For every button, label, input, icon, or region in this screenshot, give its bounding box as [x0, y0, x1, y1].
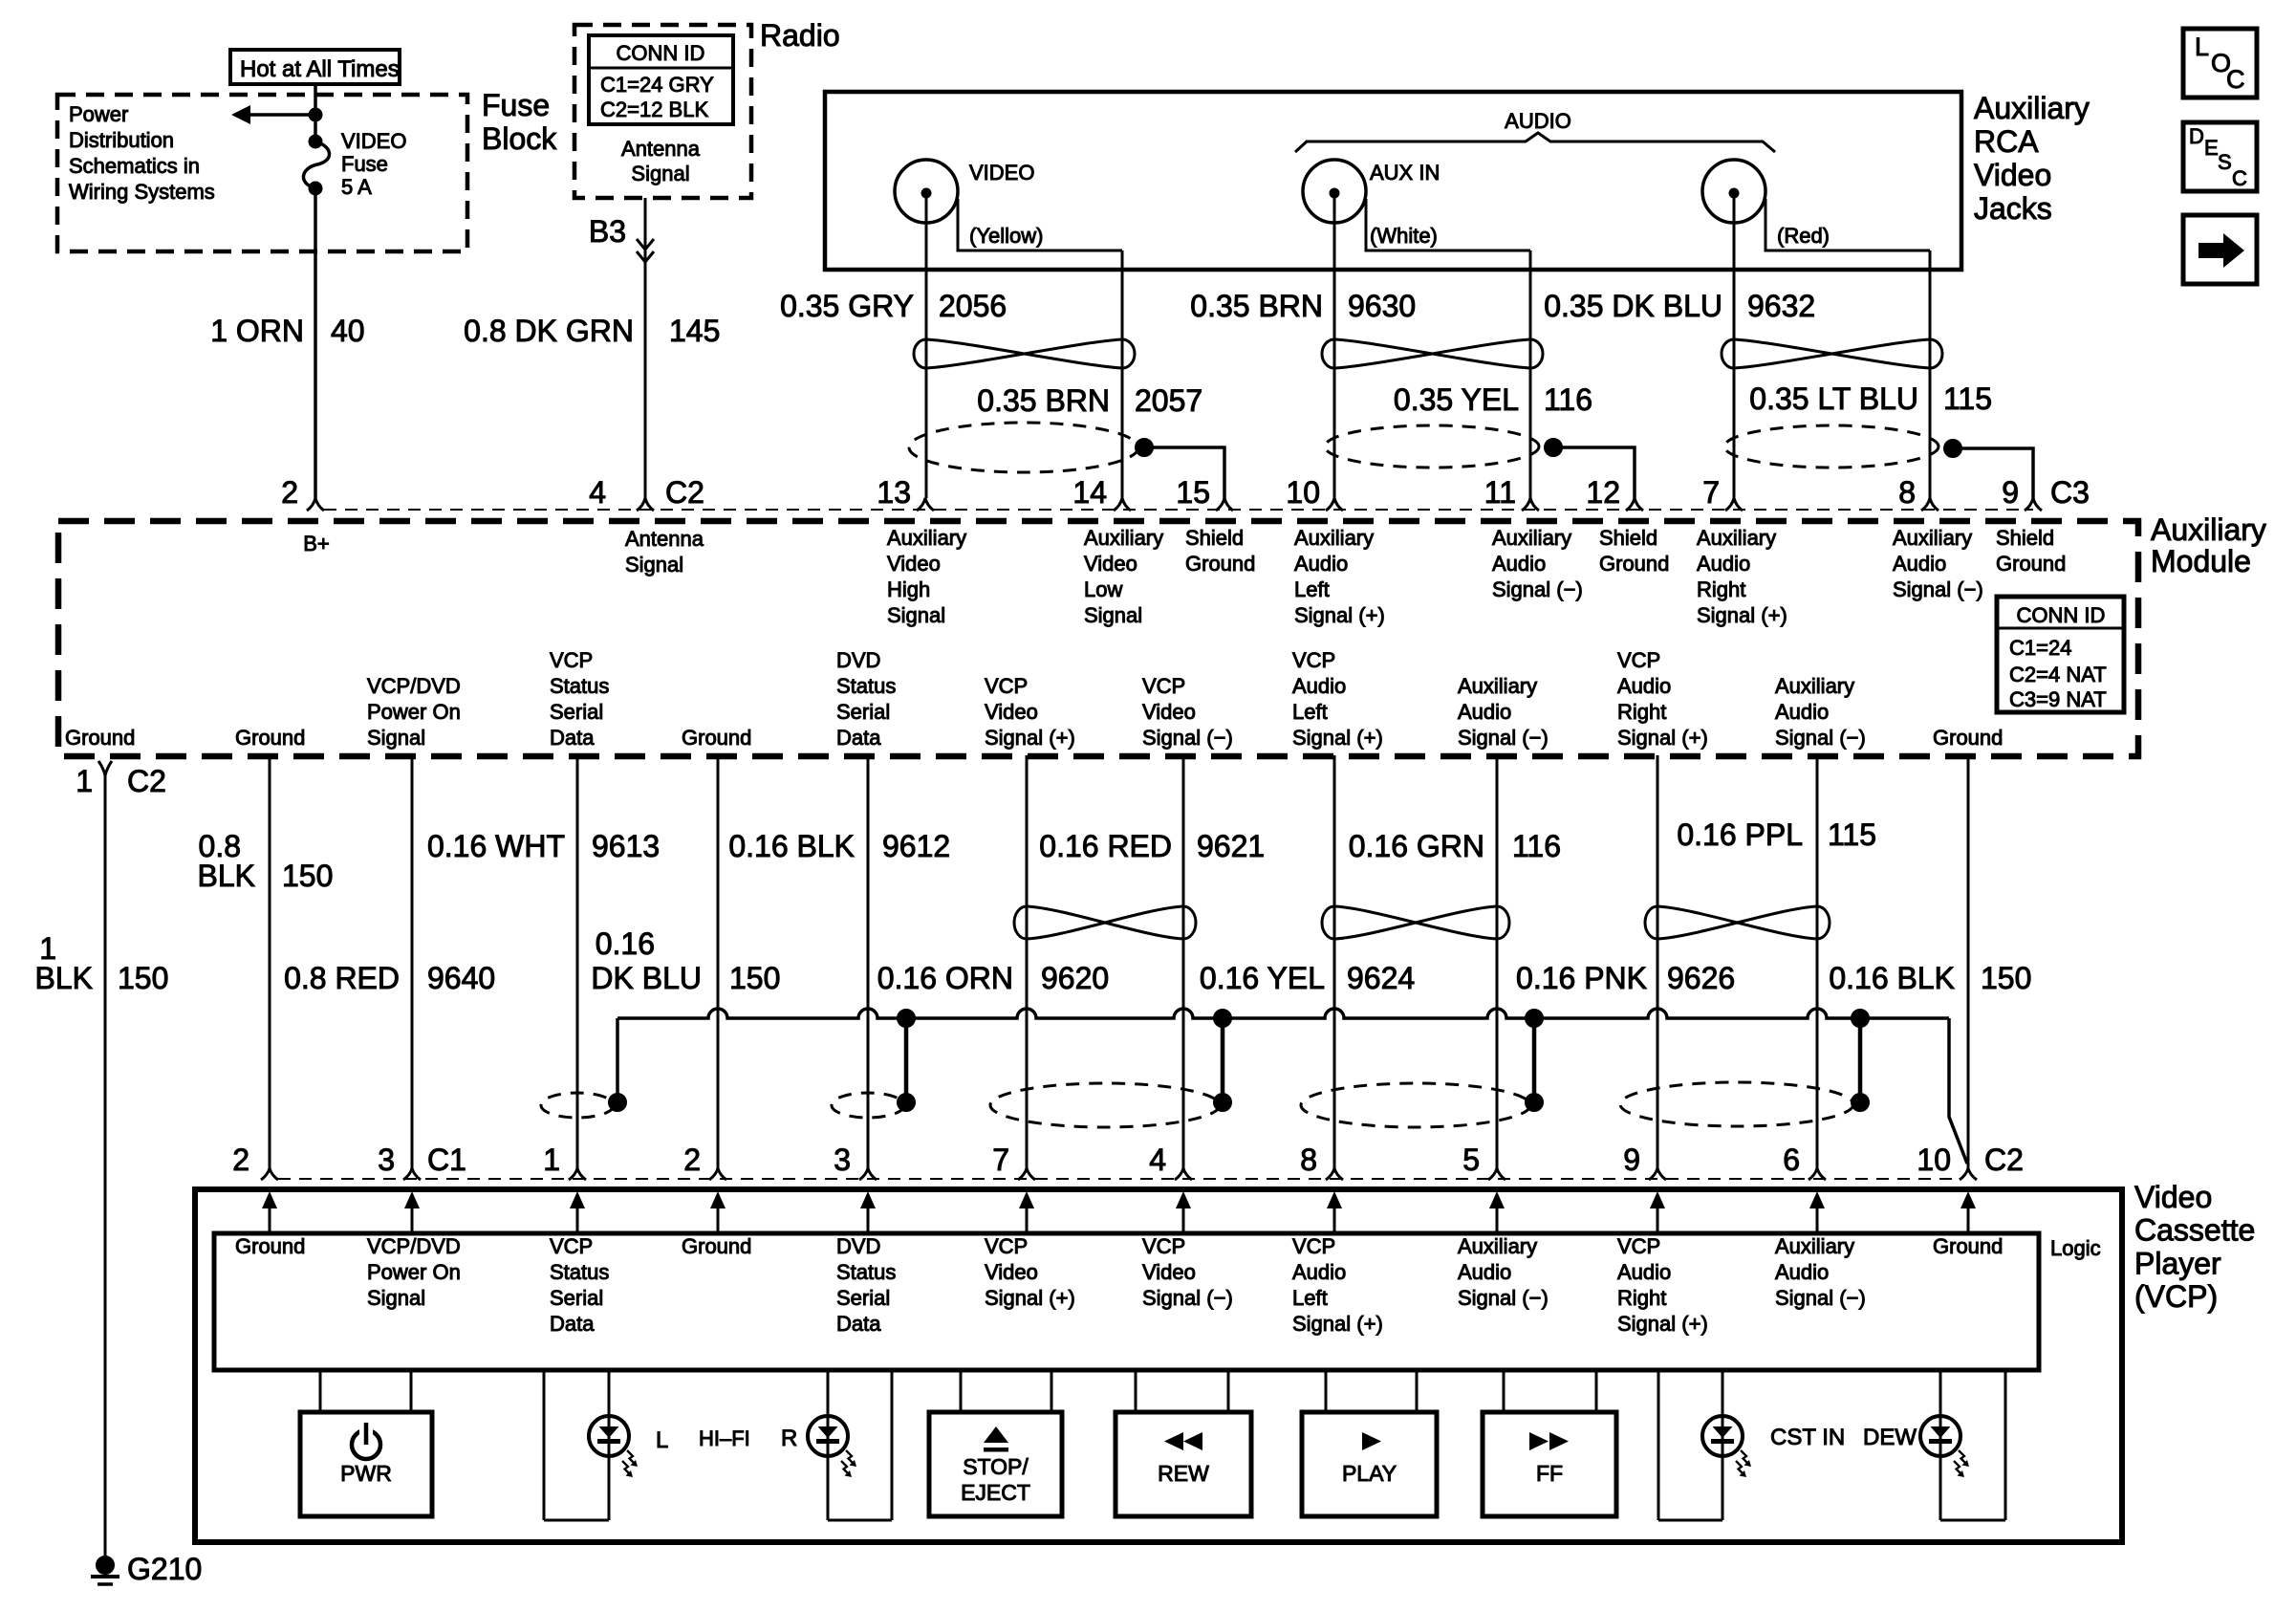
svg-text:9620: 9620 [1041, 961, 1109, 995]
svg-text:14: 14 [1072, 475, 1107, 510]
svg-text:S: S [2218, 150, 2232, 174]
svg-text:Ground: Ground [1599, 552, 1669, 576]
svg-text:2056: 2056 [939, 289, 1007, 323]
svg-text:Power: Power [69, 102, 128, 126]
svg-text:Audio: Audio [1617, 1260, 1671, 1284]
svg-text:B+: B+ [303, 532, 330, 555]
svg-text:145: 145 [669, 314, 720, 348]
svg-text:C1=24 GRY: C1=24 GRY [600, 73, 714, 97]
svg-text:VCP: VCP [985, 674, 1028, 698]
svg-text:Right: Right [1617, 1286, 1666, 1310]
svg-text:0.8 DK GRN: 0.8 DK GRN [464, 314, 634, 348]
svg-text:CST IN: CST IN [1770, 1425, 1845, 1450]
svg-text:12: 12 [1586, 475, 1620, 510]
svg-text:0.16 BLK: 0.16 BLK [728, 829, 855, 863]
svg-text:CONN ID: CONN ID [2017, 603, 2106, 627]
svg-text:0.35 YEL: 0.35 YEL [1394, 382, 1519, 417]
svg-text:Auxiliary: Auxiliary [887, 526, 966, 550]
svg-text:Ground: Ground [1933, 1234, 2003, 1258]
svg-text:10: 10 [1917, 1143, 1951, 1177]
svg-text:Status: Status [836, 674, 896, 698]
svg-text:C1=24: C1=24 [2009, 636, 2071, 660]
svg-text:Audio: Audio [1697, 552, 1750, 576]
svg-text:0.35 BRN: 0.35 BRN [977, 383, 1110, 418]
svg-text:C: C [2226, 65, 2245, 94]
svg-text:C3: C3 [2050, 475, 2090, 510]
svg-text:E: E [2204, 136, 2219, 160]
svg-text:Auxiliary: Auxiliary [1294, 526, 1374, 550]
svg-text:Data: Data [550, 1312, 595, 1336]
svg-text:Signal (+): Signal (+) [1697, 603, 1787, 627]
svg-text:VCP: VCP [985, 1234, 1028, 1258]
svg-text:0.35 DK BLU: 0.35 DK BLU [1544, 289, 1722, 323]
svg-text:7: 7 [992, 1143, 1009, 1177]
svg-text:VCP: VCP [1617, 648, 1660, 672]
svg-text:Fuse: Fuse [341, 152, 388, 176]
svg-text:116: 116 [1512, 829, 1561, 863]
svg-text:Video: Video [985, 700, 1038, 724]
svg-text:Antenna: Antenna [625, 527, 704, 551]
svg-text:VCP: VCP [550, 648, 593, 672]
svg-text:REW: REW [1158, 1461, 1209, 1486]
svg-text:Left: Left [1292, 1286, 1328, 1310]
svg-text:Audio: Audio [1458, 1260, 1511, 1284]
svg-text:0.16: 0.16 [596, 926, 655, 961]
svg-text:Signal: Signal [887, 603, 945, 627]
svg-text:C2: C2 [1984, 1143, 2024, 1177]
svg-text:R: R [781, 1426, 797, 1451]
svg-text:Distribution: Distribution [69, 128, 174, 152]
svg-text:VIDEO: VIDEO [969, 161, 1034, 185]
svg-text:2057: 2057 [1135, 383, 1202, 418]
svg-text:Signal: Signal [367, 726, 425, 750]
svg-text:3: 3 [378, 1143, 395, 1177]
svg-text:Video: Video [1142, 700, 1196, 724]
svg-text:(White): (White) [1370, 224, 1438, 248]
svg-text:L: L [2195, 33, 2209, 61]
svg-text:Player: Player [2134, 1246, 2221, 1280]
svg-text:0.35 LT BLU: 0.35 LT BLU [1749, 381, 1918, 416]
svg-text:Radio: Radio [760, 18, 840, 53]
svg-text:DVD: DVD [836, 648, 880, 672]
svg-text:9: 9 [2002, 475, 2019, 510]
svg-text:Auxiliary: Auxiliary [1974, 91, 2090, 125]
svg-text:Signal: Signal [367, 1286, 425, 1310]
svg-text:Serial: Serial [836, 1286, 890, 1310]
svg-text:Auxiliary: Auxiliary [1492, 526, 1571, 550]
svg-text:Ground: Ground [65, 726, 135, 750]
svg-text:Left: Left [1294, 577, 1330, 601]
svg-text:RCA: RCA [1974, 124, 2039, 159]
svg-text:150: 150 [282, 859, 333, 893]
svg-text:Audio: Audio [1292, 674, 1346, 698]
svg-text:Auxiliary: Auxiliary [1084, 526, 1163, 550]
svg-text:11: 11 [1484, 475, 1516, 510]
svg-text:Video: Video [1974, 158, 2051, 192]
svg-text:Video: Video [2134, 1180, 2212, 1214]
svg-text:Wiring Systems: Wiring Systems [69, 180, 215, 204]
svg-text:Audio: Audio [1617, 674, 1671, 698]
svg-text:8: 8 [1300, 1143, 1317, 1177]
svg-text:PWR: PWR [340, 1461, 392, 1486]
svg-text:Signal (−): Signal (−) [1775, 726, 1866, 750]
svg-text:Audio: Audio [1893, 552, 1946, 576]
svg-text:Audio: Audio [1292, 1260, 1346, 1284]
svg-text:VCP/DVD: VCP/DVD [367, 674, 461, 698]
svg-text:0.16 PPL: 0.16 PPL [1677, 817, 1803, 852]
svg-text:Signal (−): Signal (−) [1458, 726, 1549, 750]
svg-text:Video: Video [1084, 552, 1137, 576]
svg-text:EJECT: EJECT [961, 1480, 1030, 1505]
svg-text:0.16 ORN: 0.16 ORN [877, 961, 1013, 995]
svg-text:Audio: Audio [1775, 700, 1829, 724]
svg-text:Signal (−): Signal (−) [1458, 1286, 1549, 1310]
svg-text:C2: C2 [665, 475, 704, 510]
svg-text:Jacks: Jacks [1974, 191, 2052, 226]
svg-text:VCP: VCP [1292, 1234, 1335, 1258]
svg-text:115: 115 [1828, 817, 1876, 852]
svg-text:Signal (−): Signal (−) [1775, 1286, 1866, 1310]
svg-text:Auxiliary: Auxiliary [1458, 674, 1537, 698]
svg-text:Cassette: Cassette [2134, 1213, 2255, 1248]
svg-text:DK BLU: DK BLU [591, 961, 702, 995]
svg-text:15: 15 [1176, 475, 1210, 510]
svg-text:Audio: Audio [1492, 552, 1546, 576]
svg-text:Auxiliary: Auxiliary [1458, 1234, 1537, 1258]
svg-text:9621: 9621 [1197, 829, 1265, 863]
svg-text:Schematics in: Schematics in [69, 154, 200, 178]
svg-text:9626: 9626 [1667, 961, 1735, 995]
svg-text:1 ORN: 1 ORN [210, 314, 304, 348]
svg-text:High: High [887, 577, 930, 601]
svg-text:Data: Data [836, 726, 881, 750]
svg-text:VCP: VCP [550, 1234, 593, 1258]
svg-text:Low: Low [1084, 577, 1122, 601]
svg-text:9624: 9624 [1347, 961, 1415, 995]
svg-text:7: 7 [1702, 475, 1720, 510]
svg-text:Ground: Ground [1996, 552, 2066, 576]
svg-text:Logic: Logic [2050, 1236, 2101, 1260]
svg-text:(VCP): (VCP) [2134, 1279, 2218, 1314]
svg-text:(Yellow): (Yellow) [969, 224, 1043, 248]
svg-text:0.35 GRY: 0.35 GRY [780, 289, 914, 323]
svg-text:PLAY: PLAY [1342, 1461, 1397, 1486]
svg-text:Auxiliary: Auxiliary [1893, 526, 1972, 550]
svg-text:6: 6 [1783, 1143, 1800, 1177]
svg-text:(Red): (Red) [1777, 224, 1830, 248]
svg-text:4: 4 [589, 475, 606, 510]
svg-text:Antenna: Antenna [621, 137, 701, 161]
svg-text:C3=9 NAT: C3=9 NAT [2009, 687, 2107, 711]
svg-text:VCP: VCP [1142, 674, 1185, 698]
svg-text:150: 150 [118, 961, 168, 995]
svg-text:Ground: Ground [235, 1234, 305, 1258]
svg-text:VCP/DVD: VCP/DVD [367, 1234, 461, 1258]
svg-text:150: 150 [729, 961, 780, 995]
svg-text:5 A: 5 A [341, 175, 372, 199]
svg-text:G210: G210 [127, 1552, 202, 1586]
svg-text:Status: Status [550, 674, 609, 698]
svg-text:FF: FF [1536, 1461, 1563, 1486]
svg-text:DEW: DEW [1863, 1425, 1917, 1450]
svg-text:Auxiliary: Auxiliary [1775, 674, 1854, 698]
svg-text:Block: Block [482, 121, 557, 156]
svg-text:Signal (−): Signal (−) [1893, 577, 1983, 601]
svg-text:2: 2 [281, 475, 298, 510]
svg-text:D: D [2189, 124, 2204, 148]
svg-text:Audio: Audio [1294, 552, 1348, 576]
svg-text:Shield: Shield [1599, 526, 1657, 550]
svg-text:4: 4 [1149, 1143, 1166, 1177]
svg-text:Module: Module [2151, 544, 2251, 578]
svg-text:2: 2 [232, 1143, 249, 1177]
svg-text:Data: Data [550, 726, 595, 750]
svg-text:Audio: Audio [1775, 1260, 1829, 1284]
svg-text:Shield: Shield [1185, 526, 1244, 550]
svg-text:Status: Status [550, 1260, 609, 1284]
svg-text:VCP: VCP [1142, 1234, 1185, 1258]
svg-text:8: 8 [1898, 475, 1916, 510]
svg-text:C2=12 BLK: C2=12 BLK [600, 98, 708, 121]
svg-text:9613: 9613 [592, 829, 660, 863]
svg-text:0.16 PNK: 0.16 PNK [1516, 961, 1647, 995]
svg-text:DVD: DVD [836, 1234, 880, 1258]
svg-text:1: 1 [76, 764, 93, 798]
svg-text:9632: 9632 [1747, 289, 1815, 323]
svg-text:Audio: Audio [1458, 700, 1511, 724]
svg-text:Serial: Serial [550, 1286, 603, 1310]
svg-text:CONN ID: CONN ID [617, 41, 705, 65]
svg-text:150: 150 [1981, 961, 2031, 995]
svg-text:3: 3 [834, 1143, 851, 1177]
svg-text:Signal (+): Signal (+) [985, 1286, 1075, 1310]
svg-text:9: 9 [1623, 1143, 1640, 1177]
svg-text:Signal (−): Signal (−) [1492, 577, 1583, 601]
svg-text:Auxiliary: Auxiliary [2151, 512, 2266, 547]
svg-text:Signal (−): Signal (−) [1142, 726, 1233, 750]
svg-text:HI–FI: HI–FI [699, 1426, 750, 1450]
svg-text:Video: Video [985, 1260, 1038, 1284]
svg-text:Signal (+): Signal (+) [1292, 1312, 1383, 1336]
svg-text:Fuse: Fuse [482, 88, 550, 122]
svg-text:9612: 9612 [882, 829, 950, 863]
svg-text:0.16 RED: 0.16 RED [1039, 829, 1172, 863]
svg-text:Signal: Signal [625, 553, 683, 577]
svg-text:C2=4 NAT: C2=4 NAT [2009, 663, 2107, 686]
svg-text:9640: 9640 [427, 961, 495, 995]
svg-text:C2: C2 [127, 764, 166, 798]
svg-text:Ground: Ground [1185, 552, 1255, 576]
svg-text:9630: 9630 [1348, 289, 1416, 323]
svg-text:1: 1 [543, 1143, 560, 1177]
svg-text:5: 5 [1462, 1143, 1480, 1177]
svg-text:Auxiliary: Auxiliary [1775, 1234, 1854, 1258]
svg-text:Status: Status [836, 1260, 896, 1284]
svg-text:Signal (+): Signal (+) [1617, 726, 1708, 750]
svg-text:Hot at All Times: Hot at All Times [240, 56, 400, 82]
svg-text:Auxiliary: Auxiliary [1697, 526, 1776, 550]
svg-text:Serial: Serial [550, 700, 603, 724]
svg-text:Left: Left [1292, 700, 1328, 724]
svg-text:Right: Right [1617, 700, 1666, 724]
svg-text:0.16 BLK: 0.16 BLK [1829, 961, 1955, 995]
svg-text:0.16 GRN: 0.16 GRN [1349, 829, 1484, 863]
svg-text:VIDEO: VIDEO [341, 129, 406, 153]
svg-text:B3: B3 [589, 214, 626, 249]
svg-text:AUDIO: AUDIO [1505, 109, 1571, 133]
svg-text:Ground: Ground [1933, 726, 2003, 750]
svg-text:STOP/: STOP/ [963, 1454, 1029, 1479]
svg-text:BLK: BLK [35, 961, 93, 995]
svg-text:Signal (+): Signal (+) [1294, 603, 1385, 627]
svg-text:Video: Video [1142, 1260, 1196, 1284]
svg-text:VCP: VCP [1292, 648, 1335, 672]
svg-text:Signal (−): Signal (−) [1142, 1286, 1233, 1310]
svg-text:C1: C1 [427, 1143, 466, 1177]
svg-text:Ground: Ground [682, 726, 751, 750]
svg-text:BLK: BLK [198, 859, 255, 893]
svg-text:0.35 BRN: 0.35 BRN [1190, 289, 1323, 323]
svg-text:Ground: Ground [235, 726, 305, 750]
svg-text:Data: Data [836, 1312, 881, 1336]
svg-text:Power On: Power On [367, 700, 461, 724]
svg-text:Ground: Ground [682, 1234, 751, 1258]
svg-text:Video: Video [887, 552, 941, 576]
svg-text:Power On: Power On [367, 1260, 461, 1284]
svg-text:2: 2 [683, 1143, 701, 1177]
svg-text:Right: Right [1697, 577, 1745, 601]
svg-text:116: 116 [1544, 382, 1592, 417]
svg-text:13: 13 [877, 475, 911, 510]
svg-text:Serial: Serial [836, 700, 890, 724]
svg-text:L: L [656, 1427, 668, 1453]
svg-text:Signal: Signal [631, 162, 689, 185]
svg-text:0.16 WHT: 0.16 WHT [427, 829, 565, 863]
svg-text:10: 10 [1286, 475, 1320, 510]
svg-text:0.8 RED: 0.8 RED [284, 961, 400, 995]
svg-text:Shield: Shield [1996, 526, 2054, 550]
svg-text:AUX IN: AUX IN [1370, 161, 1440, 185]
svg-text:Signal (+): Signal (+) [985, 726, 1075, 750]
svg-text:Signal (+): Signal (+) [1617, 1312, 1708, 1336]
svg-text:40: 40 [331, 314, 365, 348]
svg-text:C: C [2232, 166, 2247, 190]
svg-text:0.16 YEL: 0.16 YEL [1200, 961, 1325, 995]
svg-text:Signal: Signal [1084, 603, 1142, 627]
svg-text:VCP: VCP [1617, 1234, 1660, 1258]
svg-text:Signal (+): Signal (+) [1292, 726, 1383, 750]
svg-text:115: 115 [1943, 381, 1992, 416]
